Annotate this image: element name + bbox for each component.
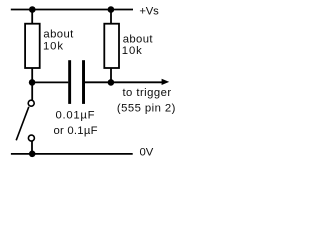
svg-text:10k: 10k [43,41,64,53]
svg-text:+Vs: +Vs [139,6,159,18]
wire +Vs top rail [11,9,133,11]
capacitor C1 left plate [68,60,71,104]
svg-text:about: about [43,28,74,40]
wire switch bottom lead [31,142,33,154]
svg-text:(555 pin 2): (555 pin 2) [117,102,176,114]
svg-text:to trigger: to trigger [122,87,171,99]
wire capacitor to trigger output [85,81,163,83]
switch SW1 top terminal [28,100,34,106]
wire R1 top lead [31,10,33,24]
svg-text:0V: 0V [140,147,154,159]
node junction top-left [29,6,36,13]
switch SW1 bottom terminal [28,135,34,141]
svg-text:or 0.1µF: or 0.1µF [53,125,97,137]
wire switch top lead [31,82,33,100]
node junction bottom [29,151,36,158]
wire R1 bottom lead [31,68,33,82]
svg-text:about: about [123,33,154,45]
arrowhead to trigger [162,79,170,85]
svg-text:10k: 10k [122,45,143,57]
capacitor C1 right plate [82,60,85,104]
resistor R2 (about 10k) [104,24,119,68]
wire 0V bottom rail [11,153,133,155]
node junction top-right [108,6,115,13]
wire R2 bottom lead [110,68,112,82]
wire middle left to capacitor [32,81,68,83]
node junction middle-right [108,79,115,86]
node junction middle-left [29,79,36,86]
svg-text:0.01µF: 0.01µF [55,110,95,122]
wire R2 top lead [110,10,112,24]
resistor R1 (about 10k) [25,24,40,68]
switch SW1 lever [16,107,29,141]
